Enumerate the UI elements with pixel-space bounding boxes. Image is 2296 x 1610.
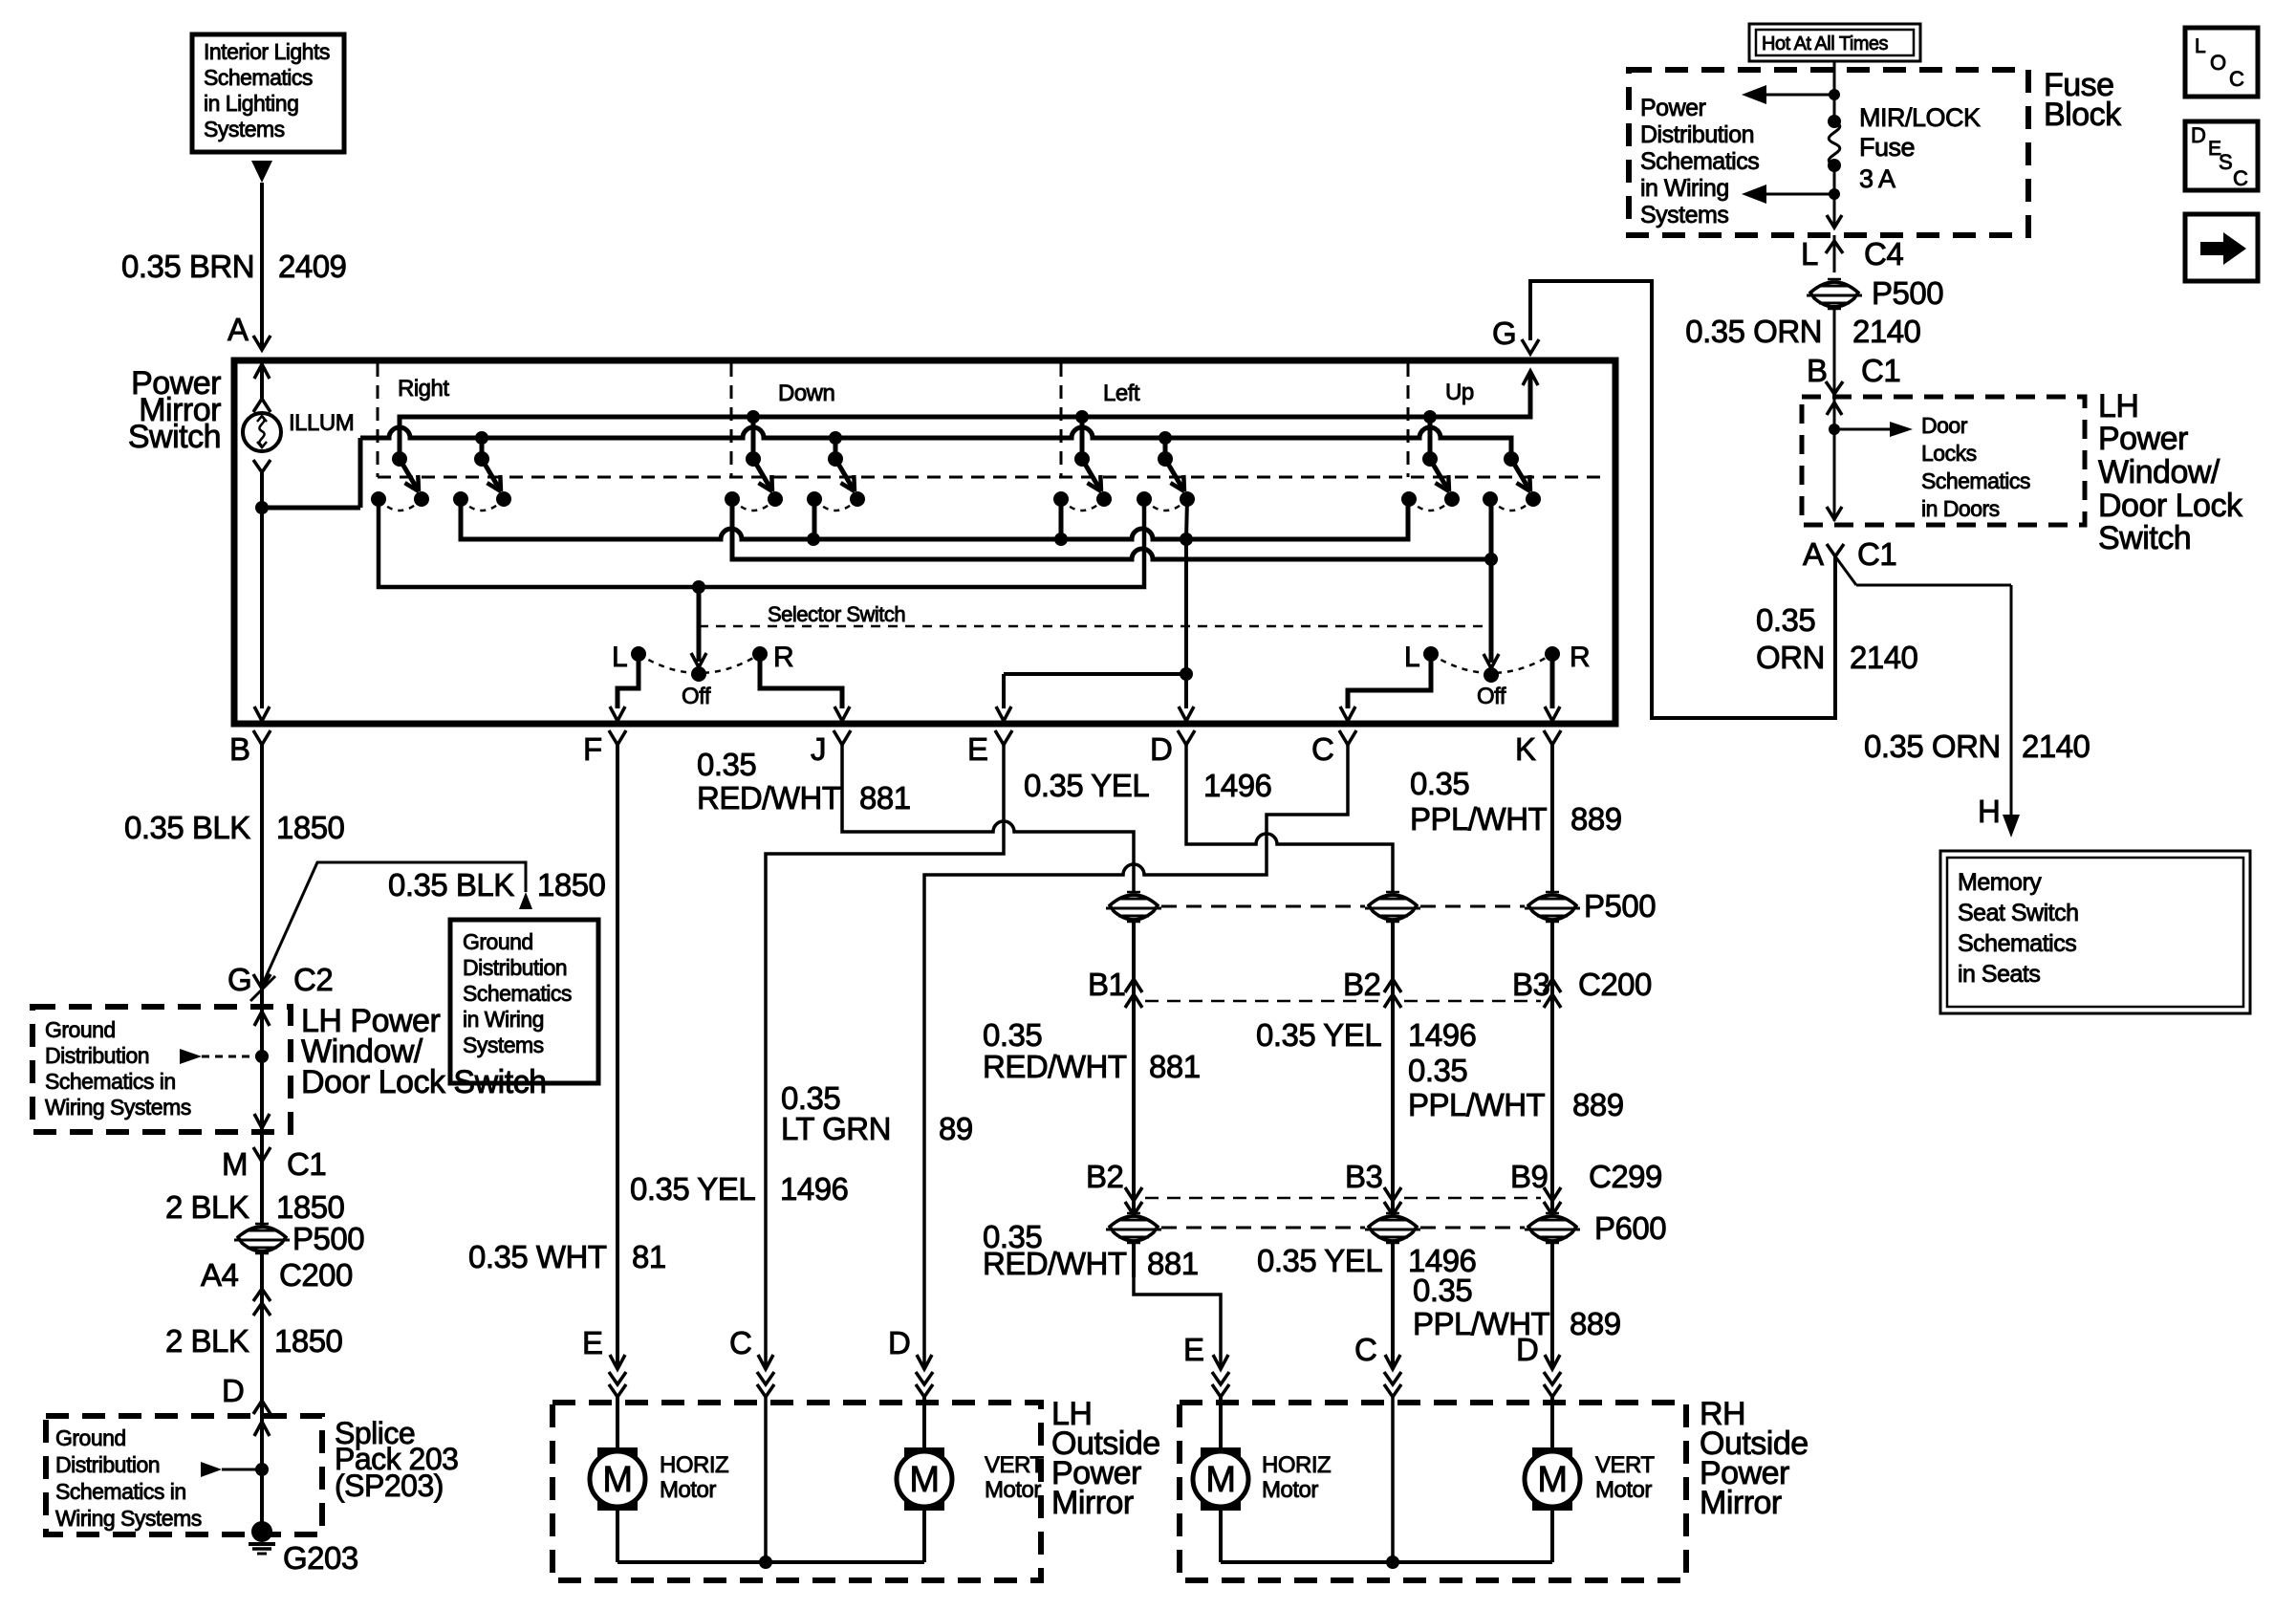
svg-text:C299: C299	[1589, 1159, 1662, 1194]
svg-text:0.35 YEL: 0.35 YEL	[1257, 1243, 1382, 1278]
svg-text:Window/: Window/	[2098, 454, 2220, 490]
svg-text:Ground: Ground	[45, 1017, 116, 1042]
svg-text:Switch: Switch	[2098, 520, 2191, 556]
svg-text:2409: 2409	[278, 249, 346, 284]
svg-text:Down: Down	[778, 381, 834, 406]
svg-text:in Wiring: in Wiring	[1640, 175, 1729, 202]
svg-text:P500: P500	[1872, 275, 1943, 311]
svg-text:Schematics in: Schematics in	[45, 1069, 176, 1094]
svg-text:Distribution: Distribution	[55, 1452, 160, 1477]
svg-text:Up: Up	[1445, 380, 1474, 405]
svg-text:R: R	[773, 642, 793, 673]
svg-text:Memory: Memory	[1958, 869, 2042, 896]
svg-text:C: C	[1311, 731, 1333, 767]
svg-text:Door Lock: Door Lock	[2098, 488, 2243, 524]
svg-text:Wiring Systems: Wiring Systems	[55, 1506, 202, 1531]
svg-text:Wiring Systems: Wiring Systems	[45, 1095, 191, 1120]
svg-text:E: E	[967, 731, 988, 767]
svg-text:Ground: Ground	[55, 1425, 126, 1450]
svg-text:R: R	[1570, 642, 1590, 673]
svg-text:C200: C200	[1578, 967, 1652, 1002]
svg-text:H: H	[1978, 794, 2000, 829]
svg-text:B2: B2	[1343, 967, 1380, 1002]
svg-text:0.35 ORN: 0.35 ORN	[1864, 729, 2001, 764]
svg-text:0.35: 0.35	[1408, 1053, 1467, 1088]
svg-text:0.35: 0.35	[983, 1017, 1042, 1053]
svg-text:HORIZ: HORIZ	[1262, 1452, 1331, 1478]
svg-text:RED/WHT: RED/WHT	[983, 1246, 1127, 1281]
svg-text:M: M	[1205, 1460, 1235, 1500]
svg-text:2140: 2140	[1850, 640, 1918, 675]
svg-text:1850: 1850	[274, 1323, 343, 1359]
svg-text:C: C	[729, 1325, 751, 1360]
svg-text:F: F	[583, 731, 602, 767]
svg-text:RED/WHT: RED/WHT	[983, 1049, 1127, 1084]
svg-text:2 BLK: 2 BLK	[165, 1189, 249, 1225]
svg-text:881: 881	[859, 780, 911, 816]
svg-text:PPL/WHT: PPL/WHT	[1410, 801, 1548, 837]
svg-text:D: D	[222, 1373, 244, 1408]
svg-text:889: 889	[1570, 801, 1622, 837]
svg-text:M: M	[1537, 1460, 1567, 1500]
svg-text:E: E	[582, 1325, 603, 1360]
svg-text:A4: A4	[201, 1257, 239, 1293]
svg-text:E: E	[1183, 1332, 1204, 1367]
svg-text:Off: Off	[682, 684, 711, 709]
svg-text:1496: 1496	[1203, 768, 1271, 803]
svg-text:1496: 1496	[1408, 1017, 1476, 1053]
svg-text:Distribution: Distribution	[1640, 121, 1754, 148]
svg-text:LH: LH	[2098, 388, 2138, 424]
svg-text:0.35 YEL: 0.35 YEL	[1024, 768, 1149, 803]
svg-text:G203: G203	[283, 1540, 358, 1576]
svg-text:Switch: Switch	[128, 419, 221, 455]
svg-text:Schematics in: Schematics in	[55, 1479, 186, 1504]
svg-text:D: D	[1150, 731, 1172, 767]
svg-text:M: M	[222, 1146, 248, 1182]
svg-text:0.35: 0.35	[1410, 766, 1469, 801]
svg-text:Systems: Systems	[1640, 202, 1728, 228]
svg-text:Locks: Locks	[1921, 441, 1977, 466]
svg-text:Power: Power	[1640, 95, 1706, 121]
svg-text:0.35 BRN: 0.35 BRN	[121, 249, 254, 284]
svg-text:B: B	[1807, 353, 1828, 388]
svg-text:2140: 2140	[1852, 314, 1921, 349]
svg-text:Ground: Ground	[463, 929, 533, 954]
svg-text:VERT: VERT	[985, 1452, 1044, 1478]
svg-text:D: D	[888, 1325, 910, 1360]
svg-text:C: C	[1354, 1332, 1376, 1367]
svg-text:Power: Power	[2098, 421, 2188, 457]
svg-text:HORIZ: HORIZ	[660, 1452, 728, 1478]
svg-text:C4: C4	[1864, 236, 1903, 272]
svg-text:C: C	[2233, 166, 2248, 190]
svg-text:81: 81	[632, 1239, 666, 1274]
svg-text:Motor: Motor	[1595, 1477, 1652, 1503]
svg-text:881: 881	[1149, 1049, 1201, 1084]
svg-text:B3: B3	[1512, 967, 1549, 1002]
svg-text:Schematics: Schematics	[204, 65, 313, 90]
svg-text:1496: 1496	[780, 1171, 848, 1207]
svg-text:C1: C1	[287, 1146, 326, 1182]
svg-text:0.35: 0.35	[1756, 602, 1815, 638]
svg-text:Distribution: Distribution	[45, 1043, 149, 1068]
svg-text:A: A	[227, 312, 249, 347]
svg-text:P500: P500	[292, 1221, 364, 1256]
svg-text:Seat Switch: Seat Switch	[1958, 900, 2079, 926]
svg-text:RED/WHT: RED/WHT	[697, 780, 841, 816]
svg-text:L: L	[2195, 35, 2205, 57]
svg-text:Right: Right	[398, 376, 449, 402]
svg-text:S: S	[2219, 150, 2232, 174]
svg-text:Distribution: Distribution	[463, 955, 567, 980]
svg-text:Block: Block	[2044, 97, 2122, 133]
svg-text:3 A: 3 A	[1859, 164, 1895, 193]
svg-text:M: M	[602, 1460, 632, 1500]
svg-text:ILLUM: ILLUM	[289, 410, 354, 436]
svg-text:C200: C200	[279, 1257, 353, 1293]
svg-text:in Doors: in Doors	[1921, 496, 2000, 521]
svg-text:Systems: Systems	[204, 117, 285, 141]
svg-text:Motor: Motor	[660, 1477, 716, 1503]
svg-text:C: C	[2229, 67, 2244, 91]
svg-text:2 BLK: 2 BLK	[165, 1323, 249, 1359]
svg-text:0.35 ORN: 0.35 ORN	[1685, 314, 1822, 349]
svg-text:Interior Lights: Interior Lights	[204, 39, 330, 64]
svg-text:89: 89	[939, 1111, 973, 1146]
svg-text:Fuse: Fuse	[1859, 133, 1915, 162]
svg-text:P600: P600	[1594, 1210, 1666, 1246]
svg-text:B1: B1	[1088, 967, 1125, 1002]
svg-text:VERT: VERT	[1595, 1452, 1655, 1478]
svg-text:LT GRN: LT GRN	[781, 1111, 891, 1146]
svg-text:C1: C1	[1857, 536, 1896, 572]
svg-text:Selector Switch: Selector Switch	[768, 602, 905, 626]
svg-text:Mirror: Mirror	[1051, 1485, 1134, 1521]
svg-text:889: 889	[1570, 1306, 1621, 1341]
svg-text:0.35 YEL: 0.35 YEL	[1256, 1017, 1381, 1053]
svg-text:in Wiring: in Wiring	[463, 1007, 544, 1032]
svg-text:0.35 BLK: 0.35 BLK	[124, 810, 250, 845]
svg-text:0.35: 0.35	[1413, 1273, 1472, 1308]
svg-text:in Seats: in Seats	[1958, 961, 2040, 988]
svg-text:2140: 2140	[2022, 729, 2090, 764]
svg-text:Schematics: Schematics	[463, 981, 572, 1006]
svg-text:Mirror: Mirror	[1700, 1485, 1782, 1521]
svg-text:P500: P500	[1584, 888, 1656, 924]
svg-text:M: M	[909, 1460, 939, 1500]
svg-text:ORN: ORN	[1756, 640, 1825, 675]
svg-text:B2: B2	[1086, 1159, 1123, 1194]
svg-text:B: B	[229, 731, 250, 767]
svg-text:O: O	[2210, 51, 2226, 75]
svg-text:Motor: Motor	[1262, 1477, 1318, 1503]
svg-text:B3: B3	[1345, 1159, 1382, 1194]
svg-text:1850: 1850	[537, 867, 606, 903]
svg-text:Motor: Motor	[985, 1477, 1041, 1503]
svg-text:Systems: Systems	[463, 1033, 544, 1057]
svg-text:Schematics: Schematics	[1921, 468, 2030, 493]
svg-text:G: G	[227, 962, 251, 997]
svg-text:J: J	[811, 731, 826, 767]
svg-text:Door: Door	[1921, 413, 1968, 438]
svg-text:C2: C2	[293, 962, 333, 997]
svg-text:Door Lock Switch: Door Lock Switch	[301, 1064, 547, 1100]
svg-text:in Lighting: in Lighting	[204, 91, 298, 116]
svg-text:Left: Left	[1103, 381, 1140, 406]
svg-text:889: 889	[1572, 1087, 1624, 1122]
svg-text:C1: C1	[1861, 353, 1900, 388]
svg-text:881: 881	[1147, 1246, 1199, 1281]
svg-text:1850: 1850	[276, 810, 345, 845]
svg-text:MIR/LOCK: MIR/LOCK	[1859, 103, 1981, 132]
svg-text:PPL/WHT: PPL/WHT	[1408, 1087, 1546, 1122]
svg-text:Off: Off	[1477, 684, 1506, 709]
svg-text:K: K	[1515, 731, 1536, 767]
svg-text:G: G	[1492, 315, 1516, 351]
svg-text:L: L	[1404, 642, 1419, 673]
svg-text:Hot At All Times: Hot At All Times	[1762, 33, 1889, 54]
svg-text:A: A	[1803, 536, 1824, 572]
svg-text:Schematics: Schematics	[1640, 148, 1759, 175]
svg-text:0.35: 0.35	[697, 747, 756, 782]
svg-text:(SP203): (SP203)	[335, 1469, 444, 1503]
svg-text:L: L	[612, 642, 627, 673]
svg-text:0.35 BLK: 0.35 BLK	[388, 867, 514, 903]
svg-text:1850: 1850	[276, 1189, 345, 1225]
svg-text:0.35 WHT: 0.35 WHT	[468, 1239, 607, 1274]
svg-text:Schematics: Schematics	[1958, 930, 2076, 957]
svg-text:D: D	[2191, 123, 2205, 147]
svg-text:0.35 YEL: 0.35 YEL	[630, 1171, 755, 1207]
svg-text:L: L	[1801, 236, 1818, 272]
svg-text:D: D	[1516, 1332, 1538, 1367]
svg-text:B9: B9	[1510, 1159, 1548, 1194]
